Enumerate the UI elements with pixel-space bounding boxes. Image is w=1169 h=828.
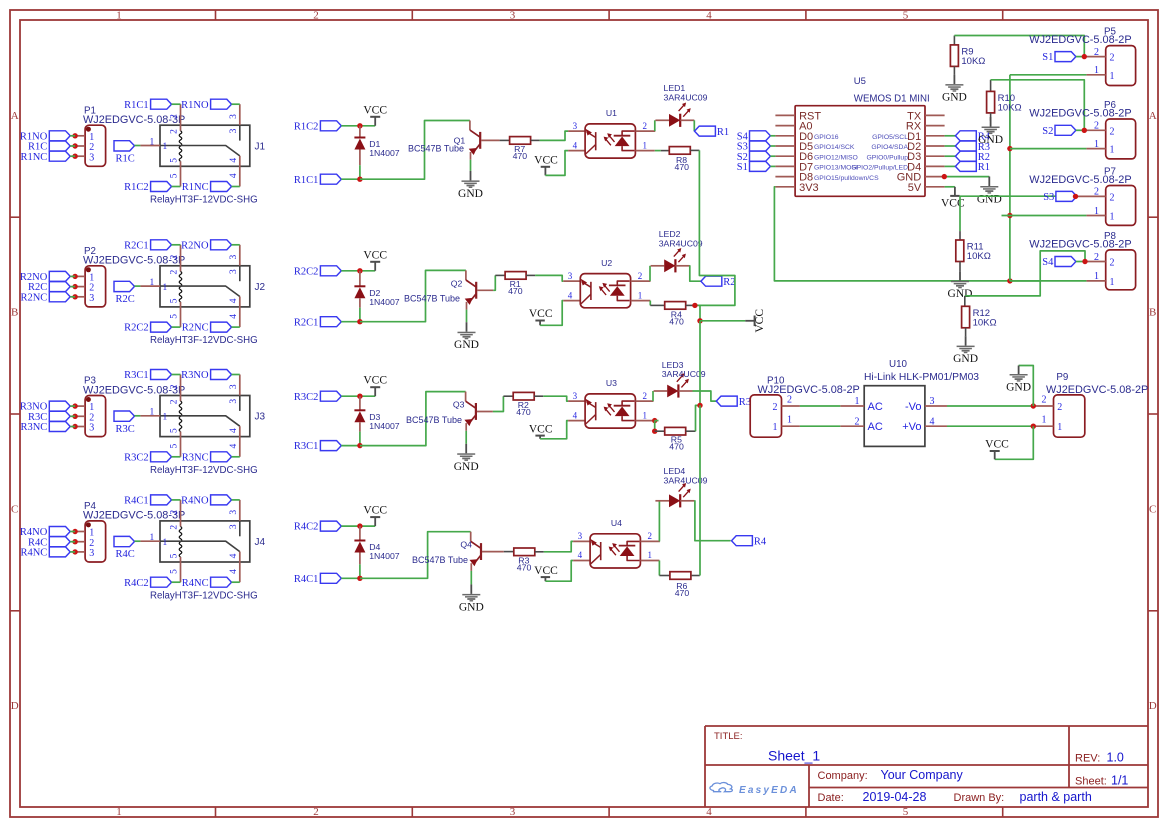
wire R4NO to P4 — [70, 531, 75, 533]
U10 pin numbers — [855, 396, 935, 427]
wire -Vo to P9 — [947, 405, 1033, 407]
lead R left row3 — [503, 395, 513, 397]
lead U1 pin1 — [635, 150, 654, 152]
svg-text:U2: U2 — [601, 258, 612, 268]
svg-text:5: 5 — [170, 553, 180, 558]
svg-text:5: 5 — [170, 158, 180, 163]
wire P4 pin 3 stub — [75, 551, 85, 553]
relay J3 coil — [179, 375, 182, 457]
net flag R1C (relay pin1) — [114, 141, 135, 165]
junction bus R4 — [692, 303, 697, 308]
wire U5 to R3 — [945, 145, 956, 147]
wire R4C to P4 — [70, 541, 75, 543]
svg-text:WJ2EDGVC-5.08-2P: WJ2EDGVC-5.08-2P — [1046, 384, 1148, 396]
lead P5 pin2 — [1084, 56, 1105, 58]
power VCC row1 — [363, 104, 387, 126]
net flag R4C2 (driver) — [294, 521, 341, 533]
svg-text:D: D — [11, 700, 19, 712]
junction bus R5 — [697, 403, 702, 408]
wire S4 to U5 — [770, 135, 775, 137]
wire U5 5V to VCC — [945, 186, 955, 188]
svg-text:2: 2 — [787, 395, 792, 406]
svg-text:2: 2 — [643, 121, 648, 131]
LED3 — [654, 360, 706, 398]
svg-text:J3: J3 — [255, 412, 266, 423]
svg-text:2: 2 — [1042, 395, 1047, 406]
svg-text:R3: R3 — [739, 397, 751, 408]
svg-text:4: 4 — [229, 569, 239, 574]
lead R6 right — [692, 575, 700, 577]
svg-text:470: 470 — [669, 316, 684, 326]
svg-text:GND: GND — [459, 601, 484, 613]
transistor Q3 — [406, 392, 476, 431]
connector P7 — [1106, 186, 1136, 226]
wire P8 pin1 — [1010, 280, 1087, 282]
resistor R2 (base) — [513, 392, 534, 417]
relay J2 pin 3 — [239, 245, 241, 266]
svg-text:WJ2EDGVC-5.08-2P: WJ2EDGVC-5.08-2P — [758, 384, 860, 396]
svg-text:4: 4 — [573, 410, 578, 420]
wire D2 bottom — [359, 298, 361, 307]
svg-text:1: 1 — [773, 422, 778, 433]
svg-text:470: 470 — [517, 563, 532, 573]
lead U10 pin1 — [840, 405, 864, 407]
wire U5 GND pin — [944, 176, 989, 178]
pin numbers P10 — [787, 395, 792, 426]
svg-text:4: 4 — [229, 298, 239, 303]
net flag R2C2 (driver) — [294, 266, 341, 278]
wire R4NC to P4 — [70, 551, 75, 553]
net flag R4 (U5) — [955, 131, 990, 143]
wire U5 3V3 rail — [774, 187, 1040, 281]
svg-text:GND: GND — [948, 288, 973, 300]
wire LED1 cathode down — [693, 120, 695, 131]
wire bus VCC branch — [700, 320, 745, 322]
wire base jog up row3 — [493, 396, 504, 411]
lead U3 pin3 — [568, 400, 585, 402]
svg-text:Sheet_1: Sheet_1 — [768, 748, 820, 764]
wire R3C to J3 pin1 — [135, 415, 141, 417]
wire R3C1 — [341, 445, 360, 447]
junction D1 anode node — [357, 123, 362, 128]
ground Q1 emitter — [458, 171, 483, 200]
svg-text:R4C2: R4C2 — [294, 522, 319, 533]
svg-text:VCC: VCC — [363, 104, 387, 116]
svg-text:1N4007: 1N4007 — [369, 551, 400, 561]
svg-text:2: 2 — [648, 531, 653, 541]
wire collector net row2 — [360, 270, 466, 321]
net flag R1C2 (relay) — [124, 182, 171, 194]
lead R9 bottom — [953, 66, 955, 74]
svg-text:4: 4 — [229, 158, 239, 163]
EasyEDA logo — [710, 783, 799, 796]
wire R4C2 node — [341, 525, 375, 527]
power VCC row1 opto — [534, 155, 558, 176]
lead P8 pin1 — [1086, 280, 1105, 282]
svg-text:1: 1 — [787, 415, 792, 426]
svg-text:5: 5 — [903, 10, 909, 22]
wire VCC to U1 pin4 — [545, 151, 568, 176]
pin numbers P8 — [1094, 252, 1099, 282]
svg-text:R4: R4 — [754, 537, 767, 548]
lead R right row2 — [526, 274, 535, 276]
U10 pin names — [868, 401, 922, 433]
svg-text:R2: R2 — [723, 277, 735, 288]
lead P8 pin2 — [1084, 261, 1105, 263]
wire R to U4 pin3 — [544, 541, 573, 551]
svg-text:1N4007: 1N4007 — [369, 297, 400, 307]
wire R4NC to pin4 — [232, 581, 240, 583]
relay J4 coil — [179, 500, 182, 582]
resistor R6 (output) — [670, 572, 691, 599]
relay J2 body — [160, 266, 250, 307]
svg-text:10KΩ: 10KΩ — [998, 102, 1022, 113]
wire P5 pin1 — [1010, 74, 1087, 76]
svg-text:3: 3 — [89, 548, 94, 559]
wire R1NC to P1 — [70, 155, 75, 157]
net flag R3C1 (driver) — [294, 441, 341, 453]
wire R3C to P3 — [70, 415, 75, 417]
svg-text:U4: U4 — [611, 518, 622, 528]
svg-text:3: 3 — [229, 384, 239, 389]
svg-text:Drawn By:: Drawn By: — [954, 792, 1005, 804]
relay J4 pin numbers — [150, 510, 240, 574]
op-amp U4 — [590, 518, 640, 568]
junction R4C1 node — [357, 576, 362, 581]
lead P5 pin1 — [1086, 74, 1105, 76]
svg-text:470: 470 — [513, 151, 528, 161]
lead R12 bottom — [965, 328, 967, 336]
wire D1 bottom green — [359, 165, 361, 179]
svg-text:VCC: VCC — [529, 308, 553, 320]
relay J3 pin 3 — [239, 375, 241, 396]
svg-text:WJ2EDGVC-5.08-2P: WJ2EDGVC-5.08-2P — [1029, 238, 1131, 250]
net flag R1C2 (driver) — [294, 121, 341, 133]
wire R4C to J4 pin1 — [135, 540, 141, 542]
net flag S4 (U5) — [737, 131, 771, 143]
wire R2C1 — [341, 321, 360, 323]
svg-text:P9: P9 — [1056, 372, 1068, 383]
pin numbers U2 — [568, 271, 642, 301]
svg-text:1N4007: 1N4007 — [369, 421, 400, 431]
net flag R4C1 — [124, 495, 171, 507]
svg-text:Sheet:: Sheet: — [1075, 776, 1107, 788]
svg-text:3AR4UC09: 3AR4UC09 — [659, 238, 703, 248]
wire S1 to U5 — [770, 165, 775, 167]
wire S4 loop — [965, 251, 1085, 296]
junction -Vo — [1031, 403, 1036, 408]
svg-text:VCC: VCC — [754, 309, 766, 333]
net flag S2 (U5) — [737, 151, 771, 163]
svg-text:3: 3 — [568, 271, 573, 281]
net flag S4 (P8) — [1042, 257, 1076, 269]
wire S1 stub — [1076, 56, 1084, 58]
wire VCC to U2 pin4 — [540, 301, 563, 326]
svg-text:2: 2 — [170, 384, 180, 389]
svg-text:1: 1 — [1094, 206, 1099, 217]
svg-text:1: 1 — [1110, 212, 1115, 223]
svg-text:2: 2 — [773, 402, 778, 413]
wire P3 pin 1 stub — [75, 405, 85, 407]
wire collector net row4 — [360, 532, 471, 579]
svg-text:1: 1 — [150, 533, 155, 543]
wire P4 pin 2 stub — [75, 541, 85, 543]
svg-text:3: 3 — [510, 10, 516, 22]
svg-text:2: 2 — [1094, 252, 1099, 263]
svg-text:RelayHT3F-12VDC-SHG: RelayHT3F-12VDC-SHG — [150, 590, 258, 601]
wire R2NO to pin3 — [232, 244, 240, 246]
svg-text:R3C2: R3C2 — [294, 392, 319, 403]
svg-text:1: 1 — [163, 413, 168, 423]
net flag R1NO (relay) — [181, 99, 231, 111]
junction P3.1 — [72, 403, 77, 408]
lead R10 top — [990, 80, 992, 92]
wire VCC to P7 pin2 (S3 net) — [960, 195, 1076, 197]
svg-text:2: 2 — [638, 271, 643, 281]
net flag R4C — [28, 537, 70, 549]
svg-text:RelayHT3F-12VDC-SHG: RelayHT3F-12VDC-SHG — [150, 195, 258, 206]
wire S2 stub — [1076, 129, 1084, 131]
wire pin1 bus vertical — [1009, 75, 1011, 281]
junction 3V3 P8 pin1 — [1007, 278, 1012, 283]
svg-text:R1: R1 — [978, 162, 990, 173]
net flag R3C — [28, 411, 70, 423]
resistor R1 (base) — [505, 272, 526, 297]
net flag R1 (U5) — [955, 161, 990, 173]
power VCC (bus) — [745, 309, 766, 333]
svg-text:2: 2 — [170, 114, 180, 119]
relay J3 pin numbers — [150, 384, 240, 448]
svg-text:R3C1: R3C1 — [124, 370, 149, 381]
svg-text:1: 1 — [1110, 71, 1115, 82]
svg-text:2: 2 — [1110, 126, 1115, 137]
svg-text:R2NC: R2NC — [20, 292, 47, 303]
svg-text:U10: U10 — [889, 359, 908, 370]
wire R3NO to P3 — [70, 405, 75, 407]
junction D4 anode node — [357, 523, 362, 528]
wire collector net row3 — [360, 392, 466, 446]
net flag R4NO — [20, 527, 70, 539]
svg-text:1: 1 — [648, 550, 653, 560]
svg-text:1: 1 — [643, 410, 648, 420]
wire D2 top — [359, 271, 361, 287]
lead R5 right — [686, 430, 696, 432]
wire S2 to U5 — [770, 155, 775, 157]
ground R10 — [978, 117, 1003, 146]
junction +Vo — [1031, 424, 1036, 429]
svg-text:REV:: REV: — [1075, 753, 1100, 765]
lead R12 top — [964, 296, 966, 306]
svg-text:S3: S3 — [1043, 192, 1054, 203]
svg-text:1: 1 — [1110, 145, 1115, 156]
diode D2 — [354, 286, 399, 307]
wire VCC to U4 pin4 — [545, 561, 573, 582]
resistor R9 — [950, 45, 985, 67]
power VCC row3 — [363, 375, 387, 397]
svg-text:R3C: R3C — [116, 424, 135, 435]
svg-text:R1NC: R1NC — [182, 182, 209, 193]
wire base to R row1 — [481, 139, 499, 141]
U5 pin names right — [851, 110, 922, 193]
wire D1 top — [359, 126, 361, 138]
svg-text:4: 4 — [578, 550, 583, 560]
net flag S1 (U5) — [737, 161, 771, 173]
lead R left row1 — [500, 139, 510, 141]
wire D3 bottom — [359, 422, 361, 431]
wire R1C1 — [341, 178, 360, 180]
svg-text:R4C1: R4C1 — [294, 574, 319, 585]
ground R12 — [953, 336, 978, 365]
lead R4 left — [650, 304, 664, 306]
wire R3NC to pin4 — [232, 456, 240, 458]
wire VCC down to R11 — [959, 196, 961, 231]
svg-text:VCC: VCC — [985, 439, 1009, 451]
wire R1C to P1 — [70, 145, 75, 147]
net flag R3NO — [20, 401, 70, 413]
net flag R2C2 (relay) — [124, 322, 171, 334]
net flag R4NC (relay) — [182, 577, 232, 589]
svg-text:R4NC: R4NC — [20, 548, 47, 559]
wire R1NC to pin4 — [232, 186, 240, 188]
wire U5 to R1 — [945, 165, 956, 167]
wire emitter to ground row3 — [465, 431, 467, 444]
title block outline — [705, 726, 1148, 807]
wire collector net row1 — [360, 121, 470, 180]
svg-text:4: 4 — [229, 173, 239, 178]
resistor R5 (output) — [665, 427, 686, 451]
svg-text:GND: GND — [977, 194, 1002, 206]
ground R11 — [948, 271, 973, 300]
svg-text:1: 1 — [150, 408, 155, 418]
relay J1 coil — [179, 104, 182, 186]
svg-text:R3C2: R3C2 — [124, 452, 149, 463]
connector P3 — [85, 396, 106, 437]
svg-text:3: 3 — [229, 524, 239, 529]
svg-text:5: 5 — [170, 314, 180, 319]
wire R2NC to pin4 — [232, 326, 240, 328]
svg-text:470: 470 — [508, 286, 523, 296]
svg-text:EasyEDA: EasyEDA — [739, 785, 799, 796]
svg-text:1N4007: 1N4007 — [369, 148, 400, 158]
svg-text:GPIO12/MISO: GPIO12/MISO — [814, 154, 858, 161]
svg-text:1.0: 1.0 — [1107, 751, 1124, 765]
svg-text:WJ2EDGVC-5.08-2P: WJ2EDGVC-5.08-2P — [1029, 174, 1131, 186]
lead R11 bottom — [959, 262, 961, 272]
svg-text:1: 1 — [1094, 271, 1099, 282]
relay J2 pin 1 lead — [140, 285, 160, 287]
relay J4 pin 4 — [239, 552, 241, 583]
junction S2 — [1082, 128, 1087, 133]
net flag R2C1 (driver) — [294, 317, 341, 329]
wire P4 pin 1 stub — [75, 531, 85, 533]
svg-text:J4: J4 — [255, 537, 266, 548]
resistor R10 — [987, 91, 1022, 113]
pin numbers U3 — [573, 391, 647, 421]
svg-text:470: 470 — [669, 442, 684, 452]
lead P9 pin1 — [1033, 425, 1053, 427]
module U10 body — [864, 386, 925, 447]
wire -Vo to GND — [1019, 366, 1034, 407]
wire R to U2 pin3 — [535, 275, 563, 281]
wire R3NC to P3 — [70, 426, 75, 428]
svg-text:VCC: VCC — [534, 565, 558, 577]
wire pin1 down — [654, 421, 656, 432]
svg-text:2: 2 — [170, 399, 180, 404]
svg-text:4: 4 — [706, 806, 712, 818]
svg-text:1: 1 — [643, 140, 648, 150]
svg-text:470: 470 — [675, 588, 690, 598]
relay J2 pin numbers — [150, 254, 240, 318]
lead U2 pin3 — [563, 280, 580, 282]
U5 pin leads right — [925, 115, 945, 186]
svg-text:GPIO14/SCK: GPIO14/SCK — [814, 144, 855, 151]
svg-text:U3: U3 — [606, 378, 617, 388]
lead R11 top — [959, 231, 961, 240]
wire P1 pin 1 stub — [75, 135, 85, 137]
wire P10 to U10 bottom — [800, 425, 840, 427]
power VCC row2 — [363, 249, 387, 271]
svg-text:VCC: VCC — [534, 155, 558, 167]
lead U4 pin2 — [640, 540, 660, 542]
wire P3 pin 3 stub — [75, 426, 85, 428]
net flag R3 (U5) — [955, 141, 990, 153]
lead U1 pin2 — [635, 130, 655, 132]
svg-text:BC547B Tube: BC547B Tube — [404, 294, 460, 304]
svg-text:VCC: VCC — [363, 505, 387, 517]
ground Q4 emitter — [459, 584, 484, 613]
svg-text:R2NC: R2NC — [182, 323, 209, 334]
lead U4 pin3 — [573, 540, 590, 542]
svg-text:2: 2 — [170, 269, 180, 274]
svg-text:R4NC: R4NC — [182, 578, 209, 589]
svg-text:5: 5 — [170, 569, 180, 574]
wire pin1 green — [655, 150, 661, 152]
net flag R4NC — [20, 547, 70, 559]
junction pin1 bus P6 — [1007, 146, 1012, 151]
svg-text:R2C1: R2C1 — [294, 317, 319, 328]
net flag R2NO (relay) — [181, 240, 231, 252]
svg-text:R2C1: R2C1 — [124, 240, 149, 251]
wire R2C to P2 — [70, 286, 75, 288]
svg-text:3: 3 — [573, 391, 578, 401]
LED4 — [655, 466, 707, 507]
wire bus R8 down — [695, 150, 735, 305]
svg-text:R4C1: R4C1 — [124, 496, 149, 507]
svg-text:Q3: Q3 — [453, 400, 465, 410]
wire emitter to ground row2 — [466, 310, 468, 323]
LED2 — [651, 229, 703, 272]
svg-text:1: 1 — [150, 137, 155, 147]
svg-text:R1C1: R1C1 — [124, 100, 149, 111]
lead U1 pin3 — [568, 130, 585, 132]
svg-text:+Vo: +Vo — [902, 421, 921, 433]
relay J1 switch — [160, 146, 240, 156]
junction S3 — [1073, 194, 1078, 199]
lead P6 pin1 — [1086, 148, 1105, 150]
svg-text:RelayHT3F-12VDC-SHG: RelayHT3F-12VDC-SHG — [150, 335, 258, 346]
junction P4.1 — [72, 529, 77, 534]
pin numbers P5 — [1094, 47, 1099, 76]
wire P7 pin1 — [1002, 215, 1087, 217]
svg-text:2: 2 — [1094, 47, 1099, 58]
ground Q3 emitter — [454, 444, 479, 473]
connector P5 — [1106, 46, 1136, 86]
power VCC row2 opto — [529, 308, 553, 325]
lead R right row4 — [535, 551, 544, 553]
wire D1 bottom — [359, 150, 361, 166]
wire base to R row3 — [477, 411, 493, 413]
wire R to U3 pin3 — [543, 396, 568, 401]
